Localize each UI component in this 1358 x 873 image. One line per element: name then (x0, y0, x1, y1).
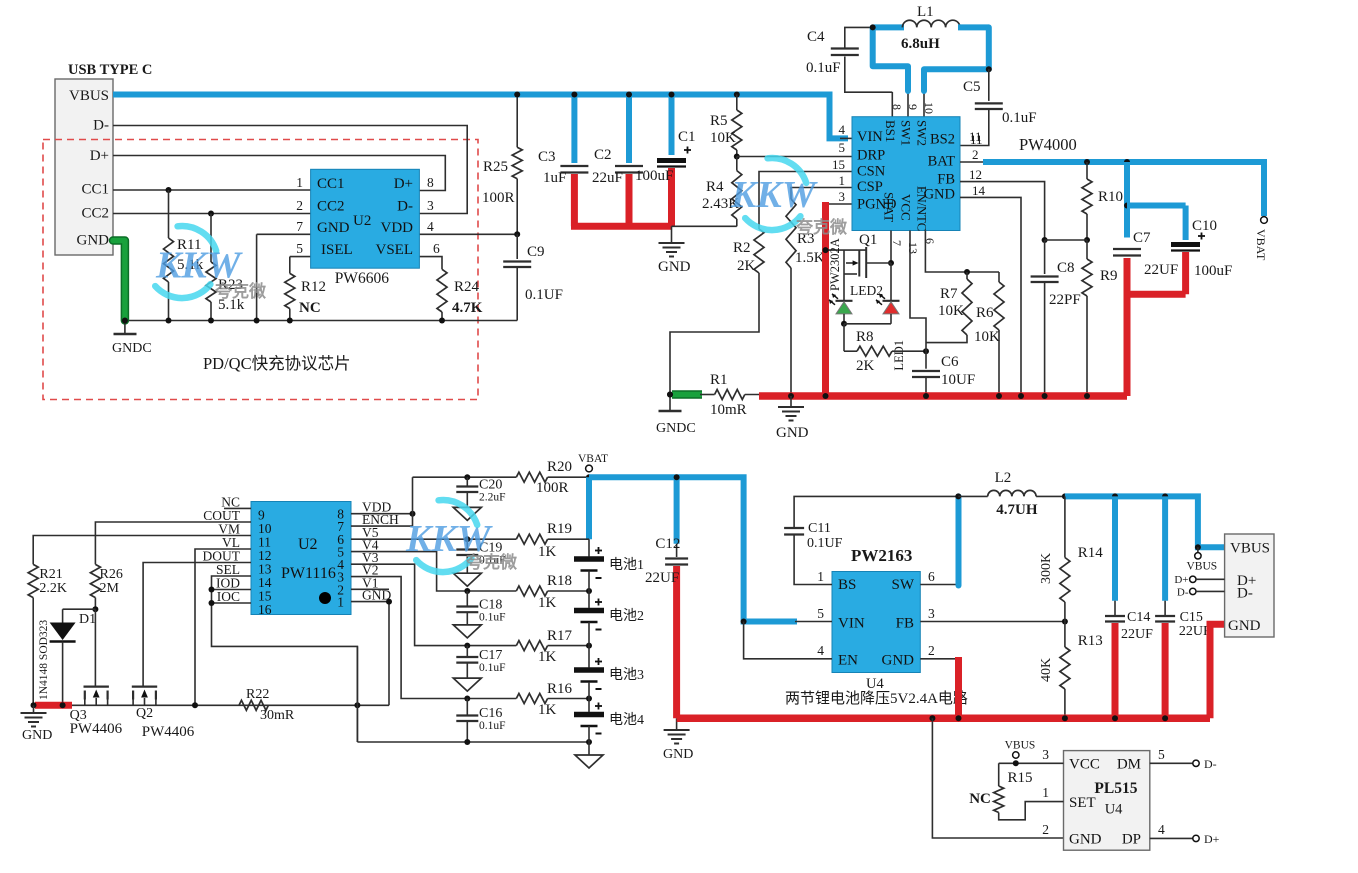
svg-text:GND: GND (882, 653, 915, 669)
svg-text:3: 3 (1042, 747, 1049, 762)
svg-text:KKW: KKW (730, 174, 819, 216)
svg-text:U4: U4 (1105, 802, 1123, 818)
svg-text:R24: R24 (454, 279, 480, 295)
svg-text:STAT: STAT (882, 192, 897, 222)
svg-text:CC1: CC1 (81, 182, 109, 198)
svg-text:NC: NC (969, 791, 991, 807)
svg-text:100R: 100R (482, 190, 515, 206)
svg-text:R1: R1 (710, 372, 728, 388)
svg-text:BAT: BAT (928, 154, 956, 170)
svg-text:8: 8 (427, 175, 434, 190)
svg-text:4: 4 (839, 122, 846, 137)
svg-text:BS: BS (838, 577, 856, 593)
svg-text:D-: D- (397, 199, 413, 215)
svg-text:R12: R12 (301, 279, 326, 295)
svg-text:VDD: VDD (381, 220, 414, 236)
svg-text:U2: U2 (353, 213, 371, 229)
svg-text:1N4148 SOD323: 1N4148 SOD323 (38, 620, 50, 700)
svg-text:C12: C12 (655, 536, 680, 552)
svg-text:LED1: LED1 (892, 340, 906, 371)
svg-text:30mR: 30mR (260, 708, 295, 723)
svg-text:1: 1 (817, 569, 824, 584)
svg-text:R26: R26 (100, 567, 123, 582)
svg-text:电池2: 电池2 (609, 608, 644, 624)
svg-text:D+: D+ (90, 148, 109, 164)
svg-text:0.1UF: 0.1UF (525, 287, 563, 303)
svg-text:PW4406: PW4406 (70, 721, 123, 737)
svg-text:CC1: CC1 (317, 176, 345, 192)
svg-text:1: 1 (839, 173, 846, 188)
svg-text:14: 14 (972, 183, 986, 198)
svg-text:GNDC: GNDC (112, 341, 152, 356)
svg-text:C1: C1 (678, 129, 696, 145)
svg-text:R6: R6 (976, 305, 994, 321)
svg-text:100R: 100R (536, 480, 569, 496)
svg-text:C17: C17 (479, 648, 502, 663)
svg-text:CC2: CC2 (81, 206, 109, 222)
svg-text:SET: SET (1069, 795, 1096, 811)
svg-text:2K: 2K (856, 358, 875, 374)
svg-text:1.5K: 1.5K (795, 250, 825, 266)
svg-text:R9: R9 (1100, 268, 1118, 284)
svg-text:40K: 40K (1039, 658, 1054, 682)
svg-text:10: 10 (922, 102, 936, 114)
svg-text:2: 2 (296, 198, 303, 213)
svg-text:Q1: Q1 (859, 232, 877, 248)
svg-text:3: 3 (928, 606, 935, 621)
svg-text:PL515: PL515 (1094, 780, 1137, 797)
svg-text:2: 2 (1042, 822, 1049, 837)
svg-text:C2: C2 (594, 147, 612, 163)
svg-text:VBUS: VBUS (1005, 740, 1036, 752)
svg-text:R18: R18 (547, 573, 572, 589)
svg-text:0.1uF: 0.1uF (806, 60, 841, 76)
svg-text:R7: R7 (940, 286, 958, 302)
svg-text:R19: R19 (547, 521, 572, 537)
svg-text:4: 4 (817, 643, 824, 658)
svg-text:2: 2 (972, 147, 979, 162)
svg-text:L1: L1 (917, 4, 934, 20)
svg-text:电池3: 电池3 (609, 667, 644, 683)
svg-text:1: 1 (337, 595, 344, 610)
svg-text:PW4000: PW4000 (1019, 135, 1077, 154)
svg-text:100uF: 100uF (635, 168, 673, 184)
svg-text:5: 5 (839, 140, 846, 155)
svg-text:5: 5 (817, 606, 824, 621)
svg-text:6.8uH: 6.8uH (901, 36, 940, 52)
svg-text:GND: GND (776, 425, 809, 441)
svg-text:R25: R25 (483, 159, 508, 175)
svg-text:Q2: Q2 (136, 706, 153, 721)
svg-text:VIN: VIN (838, 616, 865, 632)
svg-text:FB: FB (896, 616, 914, 632)
svg-text:R15: R15 (1008, 770, 1033, 786)
svg-text:R5: R5 (710, 113, 728, 129)
svg-text:C15: C15 (1180, 610, 1203, 625)
svg-text:GND: GND (22, 728, 52, 743)
svg-text:D+: D+ (1204, 832, 1220, 846)
svg-text:15: 15 (832, 157, 845, 172)
svg-text:10K: 10K (938, 303, 964, 319)
svg-text:D-: D- (93, 118, 109, 134)
svg-text:GND: GND (658, 259, 691, 275)
svg-text:D-: D- (1177, 587, 1189, 599)
svg-text:0.1uF: 0.1uF (479, 720, 506, 732)
svg-text:GND: GND (77, 233, 110, 249)
svg-text:C9: C9 (527, 244, 545, 260)
svg-text:9: 9 (906, 104, 920, 110)
svg-text:KKW: KKW (155, 245, 244, 287)
svg-text:NC: NC (299, 300, 321, 316)
svg-text:2: 2 (928, 643, 935, 658)
svg-text:5: 5 (1158, 747, 1165, 762)
svg-text:2.2uF: 2.2uF (479, 492, 506, 504)
svg-text:U2: U2 (298, 536, 318, 553)
svg-text:D-: D- (1237, 586, 1253, 602)
svg-text:DP: DP (1122, 832, 1141, 848)
svg-text:11: 11 (969, 129, 982, 144)
svg-text:R14: R14 (1078, 545, 1104, 561)
svg-text:300K: 300K (1039, 553, 1054, 584)
svg-text:22UF: 22UF (1144, 262, 1178, 278)
svg-text:13: 13 (906, 242, 920, 254)
svg-text:1uF: 1uF (543, 170, 566, 186)
svg-text:L2: L2 (995, 470, 1012, 486)
svg-text:3: 3 (427, 198, 434, 213)
svg-text:7: 7 (296, 219, 303, 234)
svg-text:0.1uF: 0.1uF (479, 612, 506, 624)
svg-text:10UF: 10UF (941, 372, 975, 388)
svg-text:6: 6 (433, 241, 440, 256)
svg-text:SW1: SW1 (899, 120, 914, 146)
svg-text:PW1116: PW1116 (281, 565, 336, 582)
svg-text:夸克微: 夸克微 (215, 281, 267, 301)
svg-text:VBAT: VBAT (1254, 229, 1268, 261)
svg-text:12: 12 (969, 167, 982, 182)
svg-text:GND: GND (663, 747, 693, 762)
svg-text:R4: R4 (706, 179, 724, 195)
svg-text:GND: GND (1228, 618, 1261, 634)
svg-text:VCC: VCC (899, 194, 914, 221)
svg-text:SW: SW (892, 577, 915, 593)
svg-text:BS1: BS1 (883, 120, 898, 142)
svg-text:VBUS: VBUS (69, 88, 109, 104)
svg-text:CC2: CC2 (317, 199, 345, 215)
svg-text:22UF: 22UF (645, 570, 679, 586)
svg-text:D1: D1 (79, 612, 96, 627)
svg-text:EN/NTC: EN/NTC (915, 186, 929, 231)
svg-text:VSEL: VSEL (376, 242, 414, 258)
svg-text:C20: C20 (479, 478, 502, 493)
svg-text:FB: FB (937, 172, 955, 188)
svg-text:CSN: CSN (857, 164, 886, 180)
svg-text:BS2: BS2 (930, 132, 955, 148)
svg-text:C18: C18 (479, 598, 502, 613)
svg-text:R10: R10 (1098, 189, 1123, 205)
svg-text:2M: 2M (100, 581, 120, 596)
svg-text:DRP: DRP (857, 148, 885, 164)
svg-text:1K: 1K (538, 544, 557, 560)
svg-text:GNDC: GNDC (656, 421, 696, 436)
svg-text:PW4406: PW4406 (142, 724, 195, 740)
svg-text:2.2K: 2.2K (39, 581, 67, 596)
svg-text:5: 5 (296, 241, 303, 256)
svg-text:0.1UF: 0.1UF (807, 536, 843, 551)
svg-text:VBAT: VBAT (578, 453, 608, 465)
svg-text:C14: C14 (1127, 610, 1150, 625)
svg-text:4.7UH: 4.7UH (996, 502, 1038, 518)
svg-text:4: 4 (1158, 822, 1165, 837)
svg-text:C6: C6 (941, 354, 959, 370)
svg-text:8: 8 (890, 104, 904, 110)
svg-text:CSP: CSP (857, 179, 883, 195)
svg-text:C4: C4 (807, 29, 825, 45)
svg-text:1K: 1K (538, 702, 557, 718)
svg-text:10K: 10K (710, 130, 736, 146)
svg-text:10mR: 10mR (710, 402, 747, 418)
svg-text:两节锂电池降压5V2.4A电路: 两节锂电池降压5V2.4A电路 (785, 690, 968, 707)
svg-text:VBUS: VBUS (1230, 541, 1270, 557)
svg-text:3: 3 (839, 189, 846, 204)
svg-text:夸克微: 夸克微 (796, 217, 848, 237)
svg-text:D+: D+ (394, 176, 413, 192)
svg-text:VBUS: VBUS (1187, 561, 1218, 573)
svg-text:22uF: 22uF (592, 170, 623, 186)
svg-text:R21: R21 (39, 567, 62, 582)
svg-text:1K: 1K (538, 595, 557, 611)
svg-text:USB TYPE C: USB TYPE C (68, 62, 152, 78)
svg-text:电池4: 电池4 (609, 712, 644, 728)
svg-text:PW2163: PW2163 (851, 546, 912, 565)
svg-text:0.1uF: 0.1uF (1002, 110, 1037, 126)
svg-text:R20: R20 (547, 459, 572, 475)
svg-text:R2: R2 (733, 240, 751, 256)
svg-text:U4: U4 (866, 676, 884, 692)
svg-text:LED2: LED2 (850, 283, 883, 298)
svg-text:DM: DM (1117, 757, 1141, 773)
svg-text:1: 1 (1042, 785, 1049, 800)
svg-text:C8: C8 (1057, 260, 1075, 276)
svg-text:16: 16 (258, 602, 272, 617)
svg-text:22UF: 22UF (1179, 624, 1211, 639)
svg-text:D-: D- (1204, 757, 1217, 771)
svg-text:0.1uF: 0.1uF (479, 662, 506, 674)
svg-text:VIN: VIN (857, 129, 883, 145)
svg-text:4.7K: 4.7K (452, 300, 483, 316)
svg-text:R16: R16 (547, 681, 573, 697)
svg-text:R8: R8 (856, 329, 874, 345)
svg-text:2K: 2K (737, 258, 756, 274)
svg-text:GND: GND (317, 220, 350, 236)
svg-text:22PF: 22PF (1049, 292, 1081, 308)
svg-text:C16: C16 (479, 706, 502, 721)
svg-text:VCC: VCC (1069, 757, 1100, 773)
svg-text:1: 1 (296, 175, 303, 190)
svg-text:C5: C5 (963, 79, 981, 95)
svg-text:4: 4 (427, 219, 434, 234)
svg-text:R17: R17 (547, 628, 573, 644)
svg-text:GND: GND (1069, 832, 1102, 848)
svg-text:6: 6 (928, 569, 935, 584)
svg-text:EN: EN (838, 653, 858, 669)
svg-text:7: 7 (890, 240, 904, 246)
svg-text:C11: C11 (808, 521, 831, 536)
svg-text:1K: 1K (538, 649, 557, 665)
svg-text:PW6606: PW6606 (335, 270, 390, 287)
svg-text:C7: C7 (1133, 230, 1151, 246)
svg-text:10K: 10K (974, 329, 1000, 345)
svg-text:ISEL: ISEL (321, 242, 353, 258)
svg-text:电池1: 电池1 (609, 557, 644, 573)
svg-text:IOC: IOC (217, 589, 240, 604)
svg-text:C3: C3 (538, 149, 556, 165)
svg-text:SW2: SW2 (915, 120, 930, 146)
svg-text:夸克微: 夸克微 (466, 552, 518, 572)
svg-text:PW2302A: PW2302A (828, 238, 842, 291)
svg-text:PD/QC快充协议芯片: PD/QC快充协议芯片 (203, 354, 351, 373)
svg-text:D+: D+ (1174, 574, 1188, 586)
svg-text:100uF: 100uF (1194, 263, 1232, 279)
svg-text:R13: R13 (1078, 633, 1103, 649)
svg-text:R22: R22 (246, 687, 269, 702)
svg-text:22UF: 22UF (1121, 627, 1153, 642)
svg-text:C10: C10 (1192, 218, 1217, 234)
